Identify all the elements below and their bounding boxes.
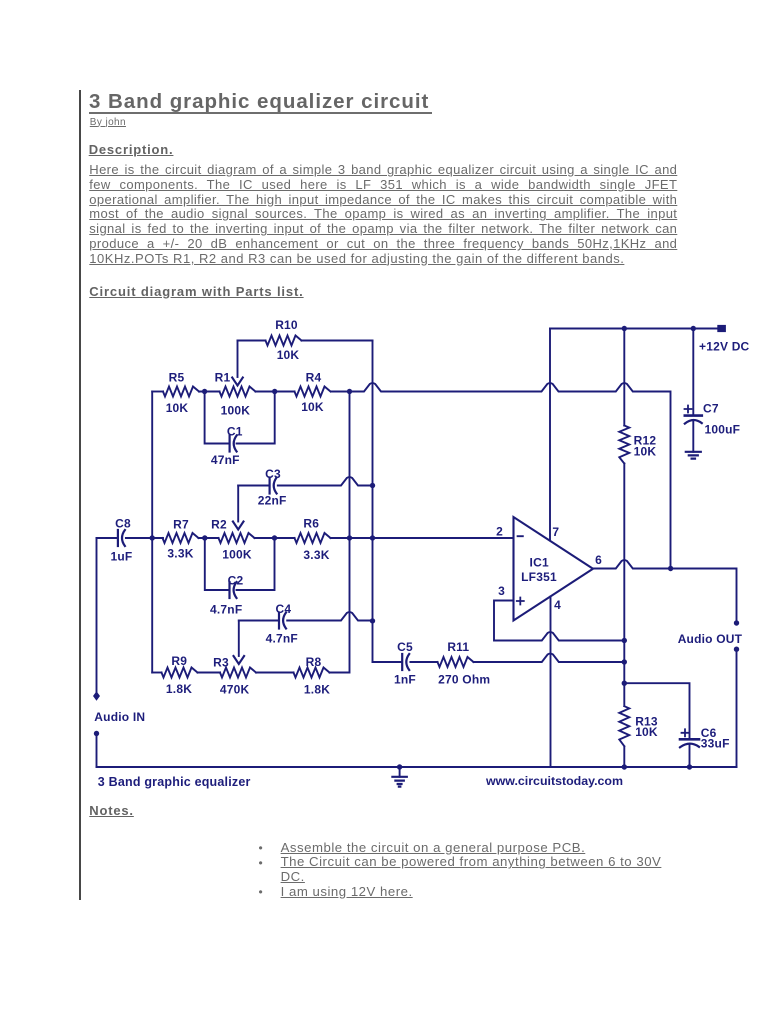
wire rail to C7 (692, 329, 694, 416)
node audio in upper (93, 691, 100, 701)
resistor R11 (438, 657, 474, 667)
node +12V terminal (717, 325, 726, 332)
svg-text:10K: 10K (277, 348, 300, 362)
svg-text:270 Ohm: 270 Ohm (438, 672, 490, 686)
node pin3 junction (622, 638, 627, 643)
svg-text:4.7nF: 4.7nF (266, 631, 298, 645)
svg-text:100K: 100K (221, 403, 251, 417)
svg-text:33uF: 33uF (701, 737, 730, 751)
node audio in lower (94, 731, 99, 736)
description paragraph (89, 163, 677, 266)
capacitor C2 (228, 582, 230, 598)
svg-text:R3: R3 (213, 655, 229, 669)
node C6 branch junction (622, 681, 627, 686)
svg-text:R10: R10 (275, 318, 298, 332)
svg-text:IC1: IC1 (530, 556, 549, 570)
wire row3 left lead (152, 672, 161, 674)
wire R10 left (238, 340, 266, 342)
node C4-bus junction (370, 618, 375, 623)
label C7 plus (685, 406, 692, 413)
wire C8 to R7 (126, 537, 163, 539)
capacitor C4 (278, 613, 280, 629)
resistor R6 (295, 533, 331, 543)
label C6 plus (682, 729, 689, 736)
svg-text:LF351: LF351 (521, 570, 557, 584)
svg-text:3: 3 (498, 584, 505, 598)
wire C5-R11 (410, 661, 437, 663)
svg-text:3.3K: 3.3K (167, 546, 193, 560)
wire audio out down (736, 649, 738, 767)
wire C7 to ground (692, 421, 694, 452)
wire C6 branch (624, 683, 689, 739)
resistor R10 (266, 336, 302, 346)
svg-text:10K: 10K (166, 401, 189, 415)
resistor R7 (163, 533, 199, 543)
svg-text:C7: C7 (703, 402, 719, 416)
wire C3 lead (238, 485, 268, 487)
svg-text:C8: C8 (115, 516, 131, 530)
capacitor C5 (401, 654, 403, 670)
node feedback junction (668, 566, 673, 571)
resistor R9 (162, 668, 198, 678)
wire bus to C5 (373, 661, 402, 663)
svg-text:1.8K: 1.8K (166, 682, 192, 696)
wire mid bus x372 (372, 341, 374, 663)
node C3-bus junction (370, 483, 375, 488)
svg-text:R8: R8 (306, 655, 322, 669)
wire R8 to mid bus (330, 392, 350, 673)
label minus (518, 535, 523, 537)
svg-text:47nF: 47nF (211, 453, 240, 467)
heading Notes (89, 803, 134, 818)
svg-text:R7: R7 (173, 517, 189, 531)
svg-text:10K: 10K (634, 445, 657, 459)
svg-text:10K: 10K (301, 400, 324, 414)
svg-text:R2: R2 (211, 517, 227, 531)
svg-text:C1: C1 (227, 424, 243, 438)
svg-text:R9: R9 (171, 654, 187, 668)
svg-text:www.circuitstoday.com: www.circuitstoday.com (485, 774, 623, 788)
heading Circuit diagram (89, 284, 303, 299)
wire C3 right (278, 477, 373, 485)
capacitor C3 (269, 478, 271, 494)
wire R12 to R13 (623, 464, 625, 707)
label plus (517, 598, 524, 605)
wire R7-R2 (199, 537, 219, 539)
byline (90, 117, 126, 128)
capacitor C7 (685, 414, 702, 417)
svg-text:22nF: 22nF (258, 493, 287, 507)
capacitor C1 box (205, 392, 275, 444)
svg-text:3 Band graphic equalizer: 3 Band graphic equalizer (98, 775, 251, 789)
node R5-R1 junction (202, 389, 207, 394)
wire V+ to pin 7 (549, 329, 551, 541)
node R4 output junction (347, 389, 352, 394)
title (89, 92, 432, 114)
node audio out lower (734, 647, 739, 652)
resistor R12 (619, 426, 629, 464)
svg-text:6: 6 (595, 553, 602, 567)
resistor R5 (163, 387, 199, 397)
svg-text:+12V DC: +12V DC (699, 340, 750, 354)
wire ground rail (97, 766, 737, 768)
wire R6 to op-amp pin 2 (331, 537, 514, 539)
wire audio in to rail (96, 734, 98, 768)
ground C7 (686, 452, 701, 459)
svg-text:100K: 100K (222, 548, 252, 562)
svg-text:Audio IN: Audio IN (94, 710, 145, 724)
svg-text:R6: R6 (303, 516, 319, 530)
node audio out upper (734, 620, 739, 625)
page left border (79, 90, 81, 900)
svg-text:Audio OUT: Audio OUT (678, 632, 743, 646)
svg-text:1.8K: 1.8K (304, 683, 330, 697)
capacitor C1 (229, 436, 231, 452)
svg-text:R4: R4 (306, 371, 322, 385)
svg-text:C5: C5 (397, 640, 413, 654)
svg-text:10K: 10K (635, 725, 658, 739)
svg-text:R5: R5 (169, 371, 185, 385)
ground symbol (399, 767, 401, 777)
wire R3-R8 (256, 672, 294, 674)
resistor R2 pot (219, 533, 255, 543)
node R6-bus1 junction (347, 535, 352, 540)
svg-text:R1: R1 (215, 371, 231, 385)
svg-text:1nF: 1nF (394, 672, 416, 686)
wire +12V rail (550, 328, 717, 330)
wire R11 to node (474, 654, 625, 662)
wire R4 output to feedback node (331, 383, 671, 568)
svg-text:470K: 470K (220, 683, 250, 697)
resistor R3 pot (220, 668, 256, 678)
wiper R1 arrow (237, 341, 239, 378)
wire audio-in to C8 (97, 537, 117, 539)
node C8-bus junction (150, 535, 155, 540)
wire R1-R4 (256, 391, 295, 393)
wire C4 lead (239, 620, 278, 622)
svg-text:4: 4 (554, 598, 561, 612)
wire R5-R1 (199, 391, 220, 393)
resistor R4 (295, 387, 331, 397)
node rail-R13 (622, 764, 627, 769)
wire C4 right (287, 612, 372, 620)
node rail-R12 junction (622, 326, 627, 331)
node R11 junction (622, 659, 627, 664)
wire C4 left / R3 wiper (238, 621, 240, 657)
svg-text:4.7nF: 4.7nF (210, 602, 242, 616)
svg-text:1uF: 1uF (111, 549, 133, 563)
svg-text:R11: R11 (447, 640, 469, 654)
node rail-C7 junction (691, 326, 696, 331)
svg-text:C2: C2 (228, 573, 244, 587)
wire C3 left / R2 wiper (237, 486, 239, 522)
resistor R1 pot (220, 387, 256, 397)
svg-text:C4: C4 (276, 602, 292, 616)
node R7-R2 junction (202, 535, 207, 540)
wire pin 4 down (550, 597, 552, 768)
node R6-bus2 junction (370, 535, 375, 540)
node R1-R4 junction (272, 389, 277, 394)
svg-text:100uF: 100uF (705, 423, 741, 437)
capacitor C6 (680, 738, 699, 741)
op-amp U1 triangle (514, 517, 594, 621)
wire row1 left lead (152, 391, 163, 393)
wire R9-R3 (198, 672, 221, 674)
node rail-ground (397, 764, 402, 769)
capacitor C2 box (205, 538, 275, 590)
wire audio in top (96, 538, 98, 693)
wire output (593, 560, 737, 623)
svg-text:C3: C3 (265, 467, 281, 481)
wire R13 to ground rail (623, 747, 625, 768)
wire pin 3 to bias node (494, 601, 624, 641)
node R2-R6 junction (272, 535, 277, 540)
wire left bus (151, 392, 153, 673)
heading Description (89, 142, 174, 157)
wire R2-R6 (255, 537, 295, 539)
wire R10 right (302, 340, 373, 342)
resistor R13 (619, 706, 629, 746)
capacitor C8 (117, 530, 119, 546)
node rail-C6 (687, 764, 692, 769)
notes bullets (259, 841, 263, 899)
resistor R8 (294, 668, 330, 678)
wire C6 to rail (689, 745, 691, 768)
wire rail to R12 (623, 329, 625, 426)
svg-text:7: 7 (552, 525, 559, 539)
svg-text:3.3K: 3.3K (303, 548, 329, 562)
svg-text:2: 2 (496, 524, 503, 538)
